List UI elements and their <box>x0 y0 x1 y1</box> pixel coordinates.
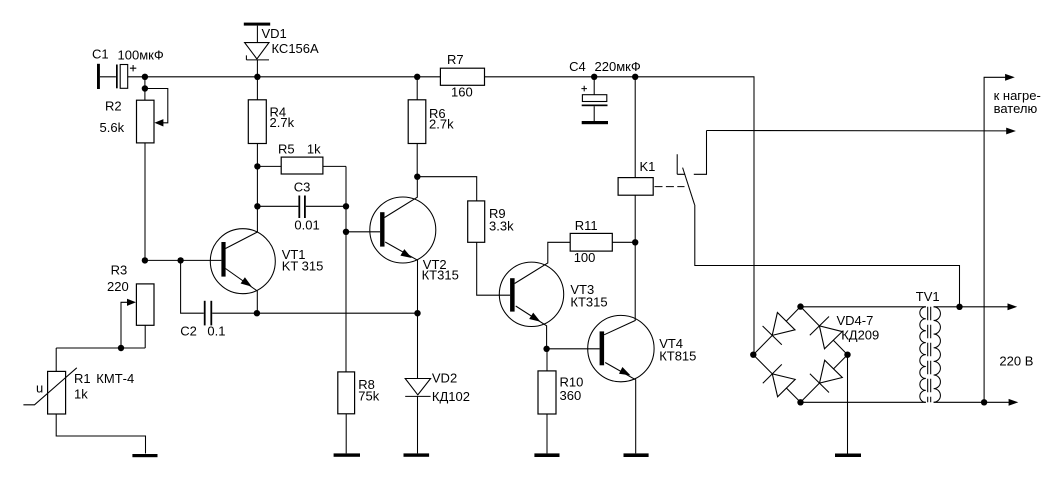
svg-text:360: 360 <box>560 388 582 403</box>
svg-text:C1: C1 <box>92 47 109 62</box>
svg-text:C3: C3 <box>294 180 311 195</box>
svg-text:R5: R5 <box>278 142 295 157</box>
svg-text:220мкФ: 220мкФ <box>595 59 641 74</box>
dashed relay link <box>655 186 685 188</box>
svg-text:VD1: VD1 <box>262 26 287 41</box>
node VT2 collector junction <box>414 174 420 180</box>
ground R10 <box>534 453 559 457</box>
svg-text:КС156А: КС156А <box>272 41 320 56</box>
node C4 junction <box>591 74 597 80</box>
resistor R5 1k <box>257 142 346 174</box>
node R6 top junction <box>414 74 420 80</box>
svg-text:0.01: 0.01 <box>294 218 319 233</box>
resistor R6 2.7k <box>408 77 454 177</box>
node bridge bottom <box>797 399 803 405</box>
svg-text:1k: 1k <box>307 142 321 157</box>
node R3 wiper junction <box>118 345 124 351</box>
zener diode VD1 KC156A <box>244 23 319 77</box>
ground R1 <box>132 454 157 457</box>
svg-text:VD2: VD2 <box>432 371 457 386</box>
svg-text:160: 160 <box>451 85 473 100</box>
capacitor C2 0.1 <box>180 301 225 339</box>
svg-text:220: 220 <box>107 279 129 294</box>
svg-text:R11: R11 <box>575 218 598 233</box>
svg-text:VD4-7: VD4-7 <box>837 313 874 328</box>
wire C2 riser <box>181 260 204 313</box>
wire R2 to base junction <box>144 143 146 261</box>
svg-text:КД102: КД102 <box>432 389 470 404</box>
svg-text:R1: R1 <box>74 371 91 386</box>
wire VT2 base <box>346 231 380 233</box>
wire R9 to VT3 base <box>477 242 510 295</box>
wire R5/C3 right riser to R8 <box>345 166 347 372</box>
node C1/R2 junction <box>142 74 148 80</box>
node VT2 base tap <box>343 229 349 235</box>
resistor R10 360 <box>538 349 583 454</box>
svg-text:0.1: 0.1 <box>207 324 225 339</box>
node bridge right <box>844 352 850 358</box>
svg-text:K1: K1 <box>640 159 656 174</box>
transformer TV1 <box>916 289 941 402</box>
node base wire junction <box>142 257 148 263</box>
node VT2 emitter / VD2 junction <box>414 310 420 316</box>
wire emitter rail <box>212 312 417 314</box>
node bridge top <box>797 303 803 309</box>
ground VD2 <box>404 453 430 456</box>
resistor R7 160 <box>440 52 484 100</box>
wire bridge top to transformer <box>801 306 926 308</box>
svg-text:2.7k: 2.7k <box>270 115 295 130</box>
wire VT1 base <box>145 259 222 261</box>
ground VT4 emitter <box>624 453 649 457</box>
svg-text:R7: R7 <box>447 52 464 67</box>
svg-text:3.3k: 3.3k <box>489 218 514 233</box>
bridge rectifier VD4-7 KD209 <box>753 307 879 403</box>
node R11 / K1 / VT4 collector junction <box>632 239 638 245</box>
node C3 left junction <box>254 203 260 209</box>
svg-text:R3: R3 <box>111 263 128 278</box>
svg-text:КМТ-4: КМТ-4 <box>96 371 134 386</box>
capacitor C1 <box>92 47 164 89</box>
relay coil K1 <box>618 77 655 243</box>
node VT3 emitter / VT4 base junction <box>543 346 549 352</box>
node mains bottom junction <box>981 399 987 405</box>
svg-text:220 В: 220 В <box>999 354 1033 369</box>
transistor VT4 KT815 <box>588 242 697 453</box>
resistor R2 5.6k potentiometer <box>100 77 168 143</box>
node transformer right top junction <box>956 304 962 310</box>
svg-text:u: u <box>36 381 43 396</box>
wire heater line 2 <box>707 128 1016 135</box>
node R2 wiper junction <box>142 85 148 91</box>
resistor R11 100 <box>570 218 635 265</box>
transistor VT2 KT315 <box>370 177 459 314</box>
wire bridge bottom to transformer <box>801 401 926 403</box>
svg-text:КТ315: КТ315 <box>570 295 607 310</box>
wire heater line 1 <box>984 74 1041 402</box>
wire VT2 collector to R9 <box>417 177 476 201</box>
svg-text:1k: 1k <box>74 386 88 401</box>
thermistor R1 KMT-4 1k <box>23 348 145 454</box>
ground R8 <box>334 453 360 456</box>
wire R4 to VT1 collector <box>226 144 258 249</box>
relay contact K1.1 <box>677 131 959 307</box>
transistor VT3 KT315 <box>499 242 607 348</box>
node C3 right junction <box>343 203 349 209</box>
wire mains line 1 <box>934 303 1018 310</box>
wire top rail <box>145 77 754 355</box>
ground bridge <box>835 454 861 458</box>
transistor VT1 KT 315 <box>210 229 323 314</box>
svg-text:вателю: вателю <box>994 101 1038 116</box>
svg-text:TV1: TV1 <box>916 289 940 304</box>
svg-text:C2: C2 <box>180 324 197 339</box>
svg-text:5.6k: 5.6k <box>100 120 125 135</box>
node K1 top junction <box>632 74 638 80</box>
wire bridge right to ground <box>847 355 849 454</box>
wire mains line 2 <box>934 354 1034 406</box>
capacitor C4 220uF <box>569 59 641 124</box>
svg-text:КТ315: КТ315 <box>422 267 459 282</box>
svg-text:R2: R2 <box>105 99 122 114</box>
capacitor C3 0.01 <box>257 180 346 233</box>
node C2 riser junction <box>177 257 183 263</box>
resistor R8 75k <box>338 372 380 454</box>
svg-text:КД209: КД209 <box>841 328 879 343</box>
diode VD2 KD102 <box>405 313 470 453</box>
node bridge left <box>750 352 756 358</box>
resistor R9 3.3k <box>468 201 514 242</box>
svg-text:КТ815: КТ815 <box>659 348 696 363</box>
svg-text:C4: C4 <box>569 59 586 74</box>
resistor R4 2.7k <box>248 77 294 144</box>
svg-text:75k: 75k <box>358 389 379 404</box>
node VD1/R4 junction <box>254 74 260 80</box>
wire VT4 base <box>547 348 600 350</box>
svg-text:KT 315: KT 315 <box>282 258 324 273</box>
svg-text:100мкФ: 100мкФ <box>118 47 164 62</box>
node VT1 emitter junction <box>254 310 260 316</box>
svg-text:100: 100 <box>574 250 596 265</box>
resistor R3 220 potentiometer <box>56 263 154 349</box>
svg-text:2.7k: 2.7k <box>429 116 454 131</box>
node R5 left junction <box>254 163 260 169</box>
